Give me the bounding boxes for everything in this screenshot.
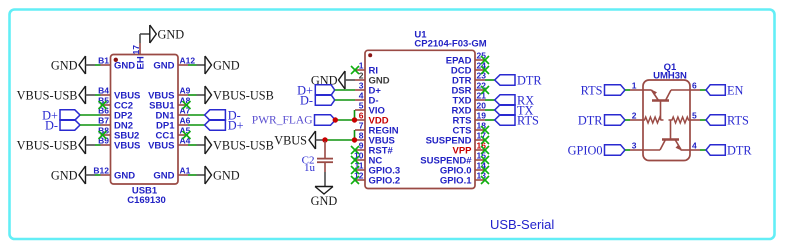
svg-text:6: 6	[692, 80, 697, 90]
svg-text:A9: A9	[180, 85, 191, 95]
no-connect U1 pin 17	[481, 136, 489, 144]
svg-text:VBUS: VBUS	[148, 140, 174, 151]
U1 pin 3 D+	[355, 89, 365, 91]
junction at VDD pin	[352, 117, 357, 122]
transistor Q1a emitter arrow	[652, 90, 657, 96]
U1 pin 19 RTS	[475, 119, 485, 121]
svg-text:GPIO.1: GPIO.1	[440, 175, 472, 186]
U1 pin 4 D-	[355, 99, 365, 101]
U1 pin 16 VPP	[475, 149, 485, 151]
no-connect U1 pin 16	[481, 146, 489, 154]
USB1 pin B8 SBU2	[101, 134, 111, 136]
no-connect USB1 B8	[99, 131, 107, 139]
U1 pin-1 origin dot	[368, 53, 372, 57]
USB1 pin B4 VBUS	[101, 94, 111, 96]
power symbol VBUS-USB at USB1 A4	[197, 144, 206, 146]
U1 pin 25 EPAD	[475, 59, 485, 61]
wire RTS from U1 pin19	[485, 119, 495, 121]
svg-text:GND: GND	[153, 170, 174, 181]
wire A4 to VBUS-USB	[188, 144, 197, 146]
wire Q1 pin 5 to RTS	[700, 119, 706, 121]
svg-text:8: 8	[359, 130, 364, 140]
svg-text:B7: B7	[98, 115, 109, 125]
wire GND to B12	[95, 174, 101, 176]
svg-text:DTR: DTR	[517, 73, 542, 87]
Q1 pin 4 stub	[690, 149, 700, 151]
no-connect U1 pin 9	[351, 146, 359, 154]
label TX at U1 pin20	[495, 105, 515, 115]
svg-text:VBUS-USB: VBUS-USB	[17, 138, 78, 152]
svg-text:20: 20	[477, 100, 487, 110]
no-connect U1 pin 14	[481, 166, 489, 174]
label RTS at Q1 pin 5	[706, 115, 725, 125]
svg-text:2: 2	[632, 110, 637, 120]
svg-text:GND: GND	[311, 194, 338, 208]
wire TX from U1 pin20	[485, 109, 495, 111]
Q1 pin 1 stub	[630, 89, 643, 91]
svg-text:1: 1	[359, 60, 364, 70]
no-connect U1 pin 11	[351, 166, 359, 174]
capacitor C2	[317, 158, 333, 160]
wire GPIO0 to Q1 pin 3	[625, 149, 630, 151]
svg-text:DTR: DTR	[727, 143, 752, 157]
USB1 pin A6 DP1	[178, 124, 188, 126]
transistor Q1b emitter arrow	[676, 145, 681, 151]
no-connect USB1 B5	[99, 101, 107, 109]
label D+ at USB1 A6	[205, 120, 226, 130]
USB1 pin A1 GND	[178, 174, 188, 176]
wire Q1 pin 4 to DTR	[700, 149, 706, 151]
no-connect U1 pin 18	[481, 126, 489, 134]
power symbol VBUS-USB at USB1 A9	[197, 94, 206, 96]
wire REGIN to VBUS	[354, 130, 356, 140]
wire VIO to VDD	[354, 110, 356, 120]
junction at C2 top	[322, 137, 327, 142]
svg-text:17: 17	[131, 45, 141, 55]
svg-text:GND: GND	[51, 168, 78, 182]
transistor Q1b emitter line	[675, 140, 681, 150]
USB1 pin A7 DN1	[178, 114, 188, 116]
svg-text:1: 1	[632, 80, 637, 90]
wire A7 to D-	[188, 114, 205, 116]
svg-text:CP2104-F03-GM: CP2104-F03-GM	[414, 38, 486, 49]
wire DTR to Q1 pin 2	[625, 119, 630, 121]
wire Q1 pin 6 to EN	[700, 89, 706, 91]
transistor Q1a base lead	[660, 102, 662, 121]
label RX at U1 pin21	[495, 95, 515, 105]
svg-text:GND: GND	[114, 60, 135, 71]
resistor in series with Q1a base (pin2)	[643, 117, 663, 123]
U1 pin 14 GPIO.0	[475, 169, 485, 171]
svg-text:3: 3	[359, 80, 364, 90]
svg-text:GND: GND	[114, 170, 135, 181]
U1 pin 17 SUSPEND	[475, 139, 485, 141]
svg-text:VBUS-USB: VBUS-USB	[17, 88, 78, 102]
svg-text:VBUS: VBUS	[114, 140, 140, 151]
svg-text:3: 3	[632, 140, 637, 150]
svg-text:4: 4	[692, 140, 697, 150]
U1 pin 8 VBUS	[355, 139, 365, 141]
wire RTS to Q1 pin 1	[625, 89, 630, 91]
wire VBUS-USB to B4	[95, 94, 101, 96]
U1 pin 20 RXD	[475, 109, 485, 111]
Q1 pin 5 stub	[690, 119, 700, 121]
Q1 pin 6 stub	[690, 89, 700, 91]
Q1 pin 2 stub	[630, 119, 643, 121]
svg-text:D-: D-	[300, 93, 313, 107]
wire RX from U1 pin21	[485, 99, 495, 101]
no-connect U1 pin 22	[481, 86, 489, 94]
U1 pin 15 SUSPEND#	[475, 159, 485, 161]
wire GND to B1	[95, 64, 101, 66]
no-connect USB1 A8	[183, 101, 191, 109]
transistor array Q1 body	[643, 80, 690, 161]
svg-text:RTS: RTS	[727, 113, 749, 127]
U1 pin 2 GND	[355, 79, 365, 81]
svg-text:GPIO.2: GPIO.2	[369, 175, 401, 186]
label EN at Q1 pin 6	[706, 85, 725, 95]
capacitor C2 wire top	[324, 141, 326, 158]
svg-text:USB-Serial: USB-Serial	[490, 217, 554, 232]
svg-text:GND: GND	[213, 168, 240, 182]
svg-text:1u: 1u	[304, 162, 316, 174]
svg-text:PWR_FLAG: PWR_FLAG	[252, 115, 313, 127]
no-connect U1 pin 15	[481, 156, 489, 164]
svg-text:4: 4	[359, 90, 364, 100]
svg-text:A1: A1	[180, 165, 191, 175]
svg-text:5: 5	[692, 110, 697, 120]
U1 pin 24 DCD	[475, 69, 485, 71]
U1 pin 22 DSR	[475, 89, 485, 91]
power symbol GND at USB1 A1	[197, 174, 206, 176]
U1 pin 5 VIO	[355, 109, 365, 111]
wire A12 to GND	[188, 64, 197, 66]
USB1 pin B12 GND	[101, 174, 111, 176]
power symbol GND at USB1 A12	[197, 64, 206, 66]
U1 pin 7 REGIN	[355, 129, 365, 131]
transistor Q1b base bar	[662, 138, 679, 141]
svg-text:B1: B1	[98, 55, 109, 65]
wire PWR_FLAG to VDD	[335, 119, 355, 121]
USB1 pin B9 VBUS	[101, 144, 111, 146]
USB1 pin A4 VBUS	[178, 144, 188, 146]
svg-text:GND: GND	[158, 27, 185, 41]
USB1 pin-1 origin dot	[114, 58, 118, 62]
wire A1 to GND	[188, 174, 197, 176]
wire D- to B7	[80, 124, 101, 126]
USB1 pin 17 EH (top)	[139, 43, 141, 55]
wire D+ to B6	[80, 114, 101, 116]
svg-text:21: 21	[477, 90, 487, 100]
label RTS at U1 pin19	[495, 115, 515, 125]
connector USB1 body	[111, 55, 179, 185]
svg-text:D-: D-	[45, 118, 58, 132]
svg-text:6: 6	[359, 110, 364, 120]
transistor Q1a collector line	[666, 90, 672, 101]
no-connect U1 pin 13	[481, 176, 489, 184]
USB1 pin A8 SBU1	[178, 104, 188, 106]
transistor Q1b collector line	[660, 140, 666, 151]
svg-text:DTR: DTR	[578, 113, 603, 127]
junction at PWR_FLAG	[333, 117, 338, 122]
svg-text:VBUS-USB: VBUS-USB	[213, 138, 274, 152]
USB1 pin A5 CC1	[178, 134, 188, 136]
label DTR at Q1 pin 4	[706, 145, 725, 155]
capacitor C2 wire bottom	[324, 162, 326, 172]
wire D- to U1 pin4	[335, 99, 355, 101]
label DTR at U1 pin23	[495, 75, 515, 85]
svg-text:23: 23	[477, 70, 487, 80]
junction at VBUS pin	[352, 137, 357, 142]
transistor Q1b base lead	[670, 120, 672, 139]
wire VBUS to U1 pin8	[325, 139, 355, 141]
Q1 pin 3 stub	[630, 149, 643, 151]
no-connect U1 pin 10	[351, 156, 359, 164]
label D- at USB1 A7	[205, 110, 226, 120]
svg-text:RTS: RTS	[581, 83, 603, 97]
svg-text:7: 7	[359, 120, 364, 130]
svg-text:GND: GND	[51, 58, 78, 72]
svg-text:RTS: RTS	[517, 113, 539, 127]
no-connect U1 pin 25	[481, 56, 489, 64]
svg-text:GND: GND	[153, 60, 174, 71]
transistor Q1a base bar	[652, 99, 669, 102]
U1 pin 21 TXD	[475, 99, 485, 101]
svg-text:2: 2	[359, 70, 364, 80]
U1 pin 10 NC	[355, 159, 365, 161]
U1 pin 18 CTS	[475, 129, 485, 131]
USB1 pin A12 GND	[178, 64, 188, 66]
power symbol GND at USB1 pin 17	[150, 25, 157, 43]
U1 pin 11 GPIO.3	[355, 169, 365, 171]
svg-text:EH: EH	[136, 56, 147, 69]
no-connect USB1 A5	[183, 131, 191, 139]
svg-text:EN: EN	[727, 83, 744, 97]
USB1 pin B6 DP2	[101, 114, 111, 116]
svg-text:GPIO0: GPIO0	[568, 143, 603, 157]
svg-text:19: 19	[477, 110, 487, 120]
svg-text:D+: D+	[228, 118, 244, 132]
svg-text:5: 5	[359, 100, 364, 110]
U1 pin 13 GPIO.1	[475, 179, 485, 181]
U1 pin 23 DTR	[475, 79, 485, 81]
U1 pin 12 GPIO.2	[355, 179, 365, 181]
svg-text:C169130: C169130	[127, 195, 166, 206]
wire D+ to U1 pin3	[335, 89, 355, 91]
no-connect U1 pin 1	[351, 66, 359, 74]
IC U1 body	[365, 50, 475, 188]
svg-text:9: 9	[359, 140, 364, 150]
USB1 pin B7 DN2	[101, 124, 111, 126]
no-connect U1 pin 24	[481, 66, 489, 74]
U1 pin 9 RST#	[355, 149, 365, 151]
svg-text:B12: B12	[93, 165, 109, 175]
USB1 pin B5 CC2	[101, 104, 111, 106]
transistor Q1a emitter line	[643, 89, 652, 91]
U1 pin 1 RI	[355, 69, 365, 71]
svg-text:GND: GND	[213, 58, 240, 72]
wire A6 to D+	[188, 124, 205, 126]
no-connect U1 pin 12	[351, 176, 359, 184]
U1 pin 6 VDD	[355, 119, 365, 121]
svg-text:B4: B4	[98, 85, 109, 95]
USB1 pin A9 VBUS	[178, 94, 188, 96]
wire pin17 up	[139, 34, 141, 43]
svg-text:A12: A12	[180, 55, 196, 65]
wire VBUS-USB to B9	[95, 144, 101, 146]
wire A9 to VBUS-USB	[188, 94, 197, 96]
svg-text:UMH3N: UMH3N	[653, 71, 687, 82]
svg-text:A6: A6	[180, 115, 191, 125]
power symbol GND below C2	[315, 187, 333, 195]
svg-text:VBUS-USB: VBUS-USB	[213, 88, 274, 102]
svg-text:VBUS: VBUS	[274, 133, 307, 147]
USB1 pin B1 GND	[101, 64, 111, 66]
wire DTR from U1 pin23	[485, 79, 495, 81]
wire C2 to GND	[324, 172, 326, 187]
resistor in series with Q1b base (pin5)	[669, 117, 690, 123]
